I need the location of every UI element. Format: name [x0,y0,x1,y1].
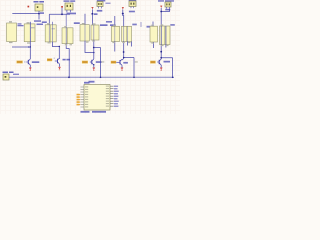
label right of Q1 [32,61,40,63]
wire branch right at y47.5 [94,48,101,78]
IC U1 right pin names [106,86,109,107]
junction on bus [68,76,70,78]
wire horizontal to R2 bottom [12,46,30,48]
junction bus x134 [133,77,135,79]
capacitor C4 [129,1,136,7]
junction cell4 branch [123,57,125,59]
capacitor C5 label [158,0,174,1]
crystal Y1 [35,4,43,11]
power VCC red dot cell2 [61,6,63,8]
resistor network R11 (double) [160,26,171,45]
resistor R3 [45,23,56,43]
junction cell5 [160,11,162,13]
wire through R6 [93,25,95,40]
resistor R10 [150,26,158,42]
resistor R6 [91,23,99,40]
net label right of Y1 wire [40,12,44,14]
wires through R4 [65,14,67,46]
value text inside R2 [31,27,35,28]
IC U1 part number bottom [92,111,106,113]
power VSS arrow below Q4 [121,68,123,71]
capacitor C2 label [64,0,76,1]
wires through R9 [124,26,128,41]
transistor Q3 [90,59,94,65]
wire through R5 [84,25,86,41]
wire emitter Q4 [121,65,123,67]
label right of Q2 [63,59,71,61]
power VSS arrow below Q2 [58,67,60,70]
junction cell4 [122,13,124,15]
label right of Q5 [164,61,171,63]
orange net labels left of U1 [77,94,81,106]
power VSS arrow below Q3 [93,68,95,71]
label below C4 [129,11,135,13]
wire R3 bottom to Q2 [52,42,59,59]
wire R11 right stub [165,26,167,48]
label below C5 [165,9,170,11]
junction bus x172.6 [172,77,174,79]
pins C4 below [131,7,134,9]
resistor R2 [24,22,35,43]
IC U1 right pins [110,86,114,106]
wire R10 bottom stub [153,42,155,48]
resistor R6 label [100,24,108,26]
faint label top mid [106,3,111,4]
wire R8 bottom stub [114,42,116,52]
wire emitter Q2 [59,64,61,67]
junction below R11 [160,51,162,53]
wire VCC stem cell2 [61,8,63,14]
connector J1 [3,74,9,80]
wire cell5 branch to bus [161,58,172,78]
resistor R1 [7,21,24,43]
wire to R8 top [114,16,116,26]
wire R9 stubs [128,42,132,47]
net label cell3 [94,13,98,15]
connector J1 label [3,72,14,74]
power VCC red dot near Y1 [28,6,30,8]
power VSS arrow cell3 [92,7,94,9]
transistor Q5 [157,59,161,65]
IC U1 left pins [81,87,85,107]
crystal Y1 label [34,1,45,3]
junction cell5 branch [160,57,162,59]
label right of Q3 [96,61,102,63]
wire VSS stem cell3 [91,9,93,13]
net label on bus near J1 [13,74,19,75]
power VSS arrow below Q5 [160,68,162,71]
wire B2 to bus [66,46,69,77]
bus wire horizontal [9,76,174,78]
junction at Q3 collector [93,52,95,54]
label below Y1 wire [34,20,41,22]
wire C5 to stem [161,9,169,12]
wire collector Q1 [29,47,31,59]
transistor Q1 [26,59,30,65]
wire short vertical x141 [140,22,142,27]
IC U1 label [84,82,90,84]
label below C2 [67,13,77,15]
net label D1 (orange) [17,61,26,64]
net label D2 (orange) [47,58,55,62]
wire to R5 top [84,14,86,25]
wire D1 top stub [152,22,154,27]
resistor R10 label [147,26,155,28]
IC U1 left pin names [85,86,88,107]
capacitor C2 [65,3,73,10]
wire R6 bottom to Q3 [93,40,95,59]
wire VSS stem cell4 [122,10,124,14]
junction bus x100.5 [100,77,102,79]
arrowhead on wire into R2 bottom node [28,46,30,48]
resistor network R9 (double) [122,26,132,41]
junction below R6 [93,47,95,49]
wire Y1 down [38,11,40,20]
resistor R8 [112,25,120,42]
resistor R3 label [42,21,47,23]
pins C3 below [99,7,102,9]
resistor R5 label [74,22,80,24]
wire cell4 to R9 top [122,14,125,27]
wire emitter Q1 [29,65,31,67]
junction cell3 [91,13,93,15]
wire to R3 top [48,14,50,24]
label below C3 [97,10,103,12]
junction Y1 wire [38,13,40,15]
resistor R7 label [110,24,116,26]
wire to R6 top [92,15,94,25]
power VSS arrow cell5 [160,6,162,8]
junction at Q2 collector branch [59,46,60,47]
label right of Q4 [123,62,128,64]
junction at R2 bottom [30,46,32,48]
wire cell4 branch to bus [124,58,134,78]
pins C2 below [67,10,70,12]
net label D3 (orange) [82,61,88,64]
net label D5 (orange) [150,61,155,64]
wire through R8 [114,26,116,41]
label right of R11 [170,24,175,26]
junction cell2 [61,13,63,15]
transistor Q2 [55,58,60,64]
IC U1 designator text bottom [81,111,90,113]
wire through R2 [29,22,31,47]
capacitor C4 label [129,0,137,1]
resistor R5 [80,23,89,41]
capacitor C3 label [97,0,106,1]
wire R5 bottom to Q3 collector [85,41,94,53]
power VSS arrow cell4 [122,8,124,10]
power VSS arrow below Q1 [29,68,31,71]
wire horizontal XTAL net [12,13,39,15]
IC U1 body [84,85,110,111]
wire emitter Q3 [93,65,95,67]
wire R9 left to Q4 collector [122,42,124,61]
value text inside R3 [52,28,56,29]
wire horizontal cell2 [49,13,70,15]
wire through R3 [49,25,52,42]
transistor Q4 [116,59,122,65]
pin number texts (gray) [64,24,168,62]
net label under bus [89,81,95,83]
wire emitter Q5 [160,65,162,67]
junction R9 wire [123,51,125,53]
junction emitter Q3 [93,64,94,65]
resistor network R4 (double) [62,28,73,44]
label above R8 [106,21,112,23]
pins C5 below [167,7,170,9]
wire VSS stem cell5 [160,8,162,26]
net labels right of U1 [114,86,119,107]
wire stub above R3 right half [51,22,53,25]
capacitor C5 [165,2,171,7]
label above R9 [132,24,137,26]
value label near R2 top [37,24,44,26]
capacitor C3 [97,2,103,7]
wire through R11 to Q5 [160,26,162,59]
net label D4 (orange) [111,61,116,64]
